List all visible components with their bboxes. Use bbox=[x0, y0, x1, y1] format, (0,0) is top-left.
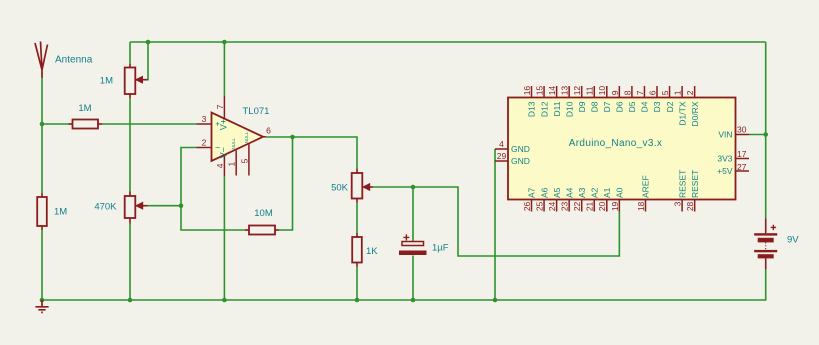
svg-text:D2: D2 bbox=[665, 101, 675, 112]
op-amp pin 7 number bbox=[215, 104, 225, 109]
op-amp pin 6 stub (output) bbox=[263, 136, 266, 138]
wire capacitor bottom to ground rail bbox=[412, 256, 414, 301]
junction ground rail / ground symbol bbox=[40, 298, 45, 303]
junction rail / pot wiper bbox=[146, 40, 151, 45]
Arduino pin 27 (+5V) right bbox=[717, 162, 749, 176]
svg-text:28: 28 bbox=[685, 201, 695, 211]
svg-text:8: 8 bbox=[622, 90, 632, 95]
op-amp pin 1 number bbox=[227, 162, 237, 167]
svg-text:1M: 1M bbox=[78, 103, 91, 114]
Arduino pin 30 (VIN) right bbox=[718, 125, 749, 140]
potentiometer RV2 470K bbox=[125, 192, 148, 224]
wire op-amp pin 4 to ground rail bbox=[223, 176, 225, 300]
wire V+ top rail bbox=[130, 41, 766, 43]
svg-text:17: 17 bbox=[737, 149, 747, 159]
potentiometer RV3 50K bbox=[352, 169, 373, 203]
junction rail / op-amp V+ pin 7 bbox=[222, 40, 227, 45]
svg-text:RESET: RESET bbox=[677, 170, 687, 198]
wire capacitor top bbox=[412, 187, 414, 242]
svg-text:V+: V+ bbox=[219, 119, 229, 130]
Arduino pin 7 (D4) top bbox=[635, 86, 650, 112]
label Antenna bbox=[55, 55, 93, 66]
svg-text:18: 18 bbox=[636, 201, 646, 211]
Arduino pin 2 (D0/RX) top bbox=[685, 86, 700, 127]
Arduino pin 21 (A2) bottom bbox=[585, 187, 600, 211]
svg-text:D3: D3 bbox=[652, 101, 662, 112]
junction ground rail / Arduino GND bbox=[493, 298, 498, 303]
label 10M (R3) bbox=[254, 208, 273, 219]
label 1M (R2) bbox=[54, 207, 67, 218]
junction 470K wiper / feedback bbox=[179, 203, 184, 208]
svg-text:1K: 1K bbox=[366, 246, 378, 257]
wire op-amp output to 50K pot bbox=[266, 137, 357, 169]
Arduino pin 1 (D1/TX) top bbox=[673, 86, 688, 126]
svg-text:30: 30 bbox=[737, 125, 747, 135]
Arduino pin 10 (D7) top bbox=[597, 86, 612, 113]
svg-text:D9: D9 bbox=[577, 101, 587, 112]
Arduino pin 29 (GND) left bbox=[495, 151, 530, 166]
svg-text:3V3: 3V3 bbox=[717, 154, 732, 164]
svg-text:21: 21 bbox=[585, 201, 595, 211]
svg-text:NULL: NULL bbox=[244, 131, 249, 143]
svg-text:A5: A5 bbox=[552, 187, 562, 198]
svg-text:Antenna: Antenna bbox=[55, 55, 93, 66]
battery BT1 9V bbox=[754, 219, 777, 270]
label 470K (RV2) bbox=[94, 201, 117, 212]
label Arduino_Nano_v3.x bbox=[569, 138, 662, 149]
svg-text:6: 6 bbox=[266, 126, 271, 136]
Arduino pin 18 (AREF) bottom bbox=[636, 175, 651, 211]
svg-text:RESET: RESET bbox=[690, 170, 700, 198]
svg-text:A2: A2 bbox=[589, 187, 599, 198]
antenna ANT1 symbol bbox=[35, 42, 48, 79]
svg-text:GND: GND bbox=[511, 144, 530, 154]
wire 50K wiper to A0 net bbox=[373, 187, 619, 256]
Arduino pin 16 (D13) top bbox=[522, 86, 537, 118]
svg-text:1: 1 bbox=[227, 162, 237, 167]
wire antenna to node A bbox=[41, 78, 43, 124]
svg-text:GND: GND bbox=[511, 156, 530, 166]
svg-text:A4: A4 bbox=[564, 187, 574, 198]
Arduino pin 8 (D5) top bbox=[622, 86, 637, 112]
svg-text:D10: D10 bbox=[564, 101, 574, 117]
svg-text:27: 27 bbox=[737, 162, 747, 172]
svg-text:24: 24 bbox=[547, 201, 557, 211]
wire 1M pot bottom to 470K pot top bbox=[129, 98, 131, 192]
svg-text:3: 3 bbox=[673, 201, 683, 206]
Arduino pin 11 (D8) top bbox=[585, 86, 600, 112]
resistor R1 1M horizontal bbox=[69, 120, 103, 129]
Arduino pin 28 (RESET) bottom bbox=[685, 170, 700, 212]
op-amp pin 2 stub (- input) bbox=[197, 147, 213, 149]
svg-text:12: 12 bbox=[572, 86, 582, 96]
Arduino U2 body bbox=[508, 98, 736, 200]
svg-text:9V: 9V bbox=[787, 235, 799, 246]
svg-text:26: 26 bbox=[522, 201, 532, 211]
wire Arduino GND pins to ground rail bbox=[494, 149, 496, 300]
potentiometer RV1 1M bbox=[125, 64, 148, 98]
svg-text:7: 7 bbox=[215, 104, 225, 109]
svg-text:1: 1 bbox=[673, 90, 683, 95]
Arduino pin 15 (D12) top bbox=[534, 86, 549, 118]
op-amp pin 6 number bbox=[266, 126, 271, 136]
wire 10M to output node bbox=[279, 137, 293, 230]
wire 1M pot wiper to rail bbox=[147, 42, 150, 80]
svg-text:A0: A0 bbox=[615, 187, 625, 198]
ground GND symbol bbox=[35, 300, 48, 312]
wire node A down to R 1M vertical bbox=[41, 124, 43, 193]
svg-text:D7: D7 bbox=[602, 101, 612, 112]
svg-text:16: 16 bbox=[522, 86, 532, 96]
op-amp pin 2 number bbox=[202, 138, 207, 148]
junction wiper / capacitor C1 bbox=[411, 185, 416, 190]
svg-text:15: 15 bbox=[534, 86, 544, 96]
svg-text:19: 19 bbox=[610, 201, 620, 211]
junction VIN / battery rail bbox=[763, 132, 768, 137]
junction ground rail / C1 bbox=[411, 298, 416, 303]
svg-text:A3: A3 bbox=[577, 187, 587, 198]
resistor R2 1M vertical bbox=[37, 193, 47, 230]
wire 1M vertical to ground rail bbox=[41, 230, 43, 300]
Arduino pin 17 (3V3) right bbox=[717, 149, 749, 164]
op-amp pin 1 stub (NULL) bbox=[235, 151, 237, 176]
label 9V (BT1) bbox=[787, 235, 799, 246]
resistor R3 10M bbox=[245, 226, 279, 235]
op-amp pin 5 number bbox=[239, 158, 249, 163]
svg-text:29: 29 bbox=[497, 151, 507, 161]
svg-text:11: 11 bbox=[585, 86, 595, 95]
svg-text:D6: D6 bbox=[615, 101, 625, 112]
svg-text:13: 13 bbox=[560, 86, 570, 96]
node A junction (antenna / 1M / 1M divider) bbox=[40, 122, 45, 127]
Arduino pin 12 (D9) top bbox=[572, 86, 587, 113]
op-amp - input mark bbox=[215, 142, 220, 152]
wire 470K wiper to inverting node bbox=[148, 205, 182, 207]
Arduino pin 14 (D11) top bbox=[547, 86, 562, 117]
Arduino pin 26 (A7) bottom bbox=[522, 187, 537, 211]
svg-text:23: 23 bbox=[560, 201, 570, 211]
op-amp + input mark bbox=[215, 119, 220, 128]
svg-text:D5: D5 bbox=[627, 101, 637, 112]
Arduino pin 20 (A1) bottom bbox=[597, 187, 612, 211]
label 1M (R1) bbox=[78, 103, 91, 114]
op-amp pin 5 stub (NULL) bbox=[248, 144, 250, 175]
wire top rail down to battery + bbox=[765, 42, 767, 219]
svg-text:A6: A6 bbox=[539, 187, 549, 198]
wire node A to R1 1M left lead bbox=[42, 123, 69, 125]
Arduino pin 9 (D6) top bbox=[610, 86, 625, 112]
svg-text:7: 7 bbox=[635, 90, 645, 95]
label 1K (R4) bbox=[366, 246, 378, 257]
svg-text:1M: 1M bbox=[100, 76, 113, 87]
op-amp pin 7 stub (V+) bbox=[223, 96, 225, 119]
Arduino pin 25 (A6) bottom bbox=[534, 187, 549, 211]
Arduino pin 23 (A4) bottom bbox=[560, 187, 575, 211]
svg-text:+5V: +5V bbox=[717, 166, 733, 176]
Arduino pin 5 (D2) top bbox=[660, 86, 675, 112]
svg-text:D13: D13 bbox=[527, 101, 537, 117]
svg-text:25: 25 bbox=[534, 201, 544, 211]
label 1M (RV1) bbox=[100, 76, 113, 87]
svg-text:D0/RX: D0/RX bbox=[690, 101, 700, 126]
op-amp pin 3 number bbox=[202, 114, 207, 124]
junction ground rail / 1K bbox=[355, 298, 360, 303]
svg-text:14: 14 bbox=[547, 86, 557, 96]
svg-text:1µF: 1µF bbox=[432, 243, 449, 254]
svg-text:A7: A7 bbox=[527, 187, 537, 198]
label 50K (RV3) bbox=[331, 183, 349, 194]
op-amp NULL name pin5 bbox=[244, 131, 249, 143]
svg-text:D8: D8 bbox=[589, 101, 599, 112]
resistor R4 1K bbox=[352, 233, 362, 267]
Arduino pin 13 (D10) top bbox=[560, 86, 575, 118]
svg-text:AREF: AREF bbox=[641, 175, 651, 198]
svg-text:Arduino_Nano_v3.x: Arduino_Nano_v3.x bbox=[569, 138, 662, 149]
wire 470K pot bottom to ground rail bbox=[129, 224, 131, 301]
svg-text:D1/TX: D1/TX bbox=[677, 101, 687, 125]
label TL071 bbox=[243, 106, 270, 117]
op-amp U1 TL071 body bbox=[212, 113, 264, 162]
svg-text:10: 10 bbox=[597, 86, 607, 96]
svg-text:5: 5 bbox=[660, 90, 670, 95]
svg-text:2: 2 bbox=[202, 138, 207, 148]
Arduino pin 22 (A3) bottom bbox=[572, 187, 587, 211]
op-amp V+ pin name bbox=[219, 119, 229, 130]
wire 1K bottom to ground rail bbox=[356, 267, 358, 301]
svg-text:22: 22 bbox=[572, 201, 582, 211]
Arduino pin 3 (RESET) bottom bbox=[673, 170, 688, 212]
svg-text:6: 6 bbox=[647, 90, 657, 95]
svg-text:NULL: NULL bbox=[231, 137, 236, 149]
svg-text:2: 2 bbox=[685, 90, 695, 95]
svg-text:A1: A1 bbox=[602, 187, 612, 198]
svg-text:D4: D4 bbox=[640, 101, 650, 112]
junction feedback / output bbox=[290, 135, 295, 140]
svg-text:3: 3 bbox=[202, 114, 207, 124]
Arduino pin 4 (GND) left bbox=[495, 139, 530, 154]
svg-text:TL071: TL071 bbox=[243, 106, 270, 117]
svg-text:1M: 1M bbox=[54, 207, 67, 218]
op-amp V- pin name bbox=[219, 147, 229, 158]
svg-text:D12: D12 bbox=[539, 101, 549, 117]
junction ground rail / op-amp V- bbox=[222, 298, 227, 303]
wire 1M pot top to rail bbox=[129, 42, 131, 64]
svg-text:4: 4 bbox=[215, 163, 225, 168]
svg-text:10M: 10M bbox=[254, 208, 273, 219]
label 1uF (C1) bbox=[432, 243, 449, 254]
svg-text:5: 5 bbox=[239, 158, 249, 163]
op-amp NULL name pin1 bbox=[231, 137, 236, 149]
wire 50K pot bottom to 1K top bbox=[356, 203, 358, 234]
wire ground rail bbox=[42, 269, 766, 300]
svg-text:20: 20 bbox=[597, 201, 607, 211]
wire op-amp pin 2 feedback loop bbox=[181, 148, 245, 231]
svg-text:D11: D11 bbox=[552, 101, 562, 116]
svg-text:9: 9 bbox=[610, 90, 620, 95]
svg-text:VIN: VIN bbox=[718, 130, 732, 140]
wire Arduino VIN to battery rail bbox=[749, 134, 766, 136]
svg-text:V−: V− bbox=[219, 147, 229, 158]
capacitor C1 1uF polarized bbox=[399, 234, 427, 255]
wire R1 1M right lead to op-amp pin 3 bbox=[102, 123, 197, 125]
Arduino pin 6 (D3) top bbox=[647, 86, 662, 112]
Arduino pin 24 (A5) bottom bbox=[547, 187, 562, 211]
wire rail to op-amp pin 7 bbox=[223, 42, 225, 96]
junction ground rail / 470K bbox=[128, 298, 133, 303]
svg-text:50K: 50K bbox=[331, 183, 349, 194]
svg-text:470K: 470K bbox=[94, 201, 117, 212]
op-amp pin 3 stub (+ input) bbox=[197, 123, 213, 125]
op-amp pin 4 stub (V-) bbox=[223, 155, 225, 176]
op-amp pin 4 number bbox=[215, 163, 225, 168]
svg-text:4: 4 bbox=[499, 139, 504, 149]
Arduino pin 19 (A0) bottom bbox=[610, 187, 625, 211]
